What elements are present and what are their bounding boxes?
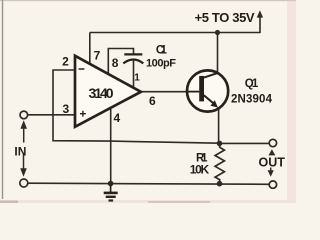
svg-text:C1: C1 [156, 45, 168, 57]
svg-text:100pF: 100pF [146, 57, 176, 69]
transistor emitter line [204, 95, 215, 104]
svg-text:6: 6 [149, 94, 156, 108]
terminal OUT bottom circle [269, 181, 276, 188]
wire pin 7 to rail [89, 33, 91, 66]
supply arrowhead [257, 10, 263, 17]
wire pin 4 to ground rail [110, 106, 112, 183]
junction dot ground node [108, 181, 114, 187]
wire capacitor to pin 1 [133, 61, 135, 89]
OUT arrow lower shaft [270, 168, 272, 171]
op-amp plus sign [80, 111, 86, 117]
junction dot at supply/collector [215, 30, 220, 35]
svg-text:OUT: OUT [259, 155, 286, 169]
OUT arrowhead down [268, 170, 274, 177]
transistor base lead inside [187, 91, 199, 93]
op-amp U1 3140 [75, 56, 141, 127]
IN arrowhead up [20, 120, 27, 128]
transistor Q1 circle [187, 70, 228, 111]
svg-text:2: 2 [62, 55, 69, 69]
transistor base bar [199, 76, 204, 102]
resistor R1 zigzag [215, 143, 224, 183]
terminal OUT top circle [269, 139, 276, 146]
junction dot emitter node [217, 141, 223, 147]
ground [104, 184, 118, 201]
IN arrow shaft [23, 128, 25, 169]
svg-text:3: 3 [62, 102, 69, 116]
svg-text:1: 1 [134, 73, 140, 84]
svg-text:7: 7 [94, 49, 101, 63]
wire supply rail [90, 32, 260, 34]
wire pin 3 input [28, 114, 75, 116]
svg-text:2N3904: 2N3904 [231, 94, 273, 106]
wire collector to rail [217, 33, 219, 73]
left border line [2, 0, 3, 199]
faint top edge line [0, 0, 296, 1]
wire bottom rail [28, 183, 269, 184]
svg-text:8: 8 [112, 56, 119, 70]
background paper [0, 0, 296, 203]
transistor collector line [204, 73, 218, 78]
wire pin 8 to capacitor [108, 49, 133, 76]
wire supply arrow stem [259, 18, 261, 34]
svg-text:4: 4 [113, 111, 120, 125]
pink scan edge bottom [0, 200, 296, 203]
wire emitter node to OUT [220, 142, 270, 144]
junction dot R1 bottom [217, 181, 223, 187]
svg-text:3140: 3140 [89, 85, 114, 101]
svg-text:Q1: Q1 [245, 78, 259, 90]
OUT arrowhead up [269, 149, 276, 155]
capacitor C1 [123, 54, 143, 63]
IN arrowhead down [20, 168, 27, 177]
svg-text:10K: 10K [190, 163, 210, 177]
wire emitter down [218, 108, 220, 143]
wire pin 2 feedback to emitter node [53, 70, 220, 143]
svg-text:+5 TO 35V: +5 TO 35V [195, 10, 255, 25]
op-amp minus sign [79, 68, 85, 70]
transistor emitter arrowhead [211, 100, 218, 107]
svg-text:IN: IN [14, 144, 26, 158]
terminal IN top circle [20, 111, 28, 119]
terminal IN bottom circle [20, 179, 28, 187]
pink scan edge right [287, 0, 296, 203]
wire op-amp output pin 6 to base [141, 91, 200, 93]
